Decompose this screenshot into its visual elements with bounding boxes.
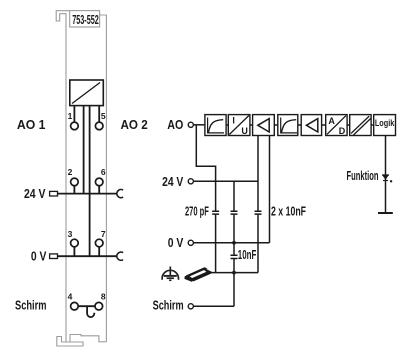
chain box 4 (curve) [278,115,298,136]
svg-text:6: 6 [101,167,106,177]
svg-text:1: 1 [68,111,73,121]
svg-text:24 V: 24 V [24,186,46,201]
pin circles [71,122,103,310]
wire AO line [194,125,386,306]
terminal circle 24V [188,179,193,184]
wire DAC 0V lead [89,106,91,257]
ground symbol [162,267,178,281]
svg-text:7: 7 [101,229,106,239]
LED symbol [382,175,392,183]
wire 0V line [194,242,270,244]
pin 5 [95,122,103,130]
bus arc 24V [117,190,123,198]
svg-text:A: A [328,116,335,126]
terminal circle Schirm [188,304,193,309]
chain box 1 (curve) [205,115,226,136]
chain box 7 (isolation) [350,115,371,136]
capacitor 270pF [212,211,261,258]
wire pin5 lead [98,106,100,123]
svg-text:8: 8 [101,292,106,302]
wire pin3 stem [73,247,75,257]
capacitor 10nF right (2x10nF) [255,211,262,214]
svg-text:D: D [339,126,346,136]
wire pin6 stem [98,186,100,194]
pin 2 [71,178,79,186]
svg-text:AO: AO [167,117,183,132]
box7 isolation diagonals [351,116,371,135]
chassis bar [378,212,393,214]
box2 I/U diagonal [229,116,249,135]
wire cap3 bottom to shield rail [257,214,259,272]
pin numbers [68,111,106,301]
svg-text:5: 5 [101,111,106,121]
pin 1 [71,122,79,130]
wire AO branch to 270pF [196,125,215,211]
svg-text:4: 4 [68,292,73,302]
DAC box [70,80,104,106]
wire 0V rail module [58,255,118,257]
svg-text:3: 3 [68,229,73,239]
svg-text:0 V: 0 V [31,249,47,264]
wire schirm line [194,305,235,307]
box1 curve axes [208,118,224,133]
svg-text:270 pF: 270 pF [185,203,209,218]
wire riser box3 to 0V [269,136,271,243]
svg-text:24 V: 24 V [162,174,184,189]
svg-text:I: I [232,116,235,126]
svg-text:Logik: Logik [375,118,395,128]
chain box 8 (Logik) [374,115,396,136]
box4 curve [281,120,296,133]
wire riser box3 to 24V [257,136,259,211]
box4 curve axes [281,118,297,133]
wire 270pF to shield rail [215,214,217,272]
svg-text:Schirm: Schirm [15,297,47,312]
wire shield bridge 4-8 [78,305,96,307]
box6 A/D diagonal [327,116,346,135]
wire pin2 stem [73,186,75,194]
terminal circle 0V [188,240,193,245]
connector 24V [50,191,58,196]
svg-text:Funktion: Funktion [347,168,379,183]
module 753-552 outline [56,11,106,346]
svg-text:AO 1: AO 1 [17,117,46,132]
wire cap2 column [233,181,235,211]
terminal circle AO [188,122,193,309]
svg-text:2: 2 [68,167,73,177]
junction dot 0V [232,241,236,245]
wire 10nF to schirm [233,259,235,307]
wire pin7 stem [98,247,100,257]
svg-text:U: U [241,126,248,136]
pin 7 [95,239,103,247]
svg-text:0 V: 0 V [168,235,184,250]
capacitor 10nF lower [231,255,238,258]
wire shield rail [212,272,259,274]
box1 curve [208,120,223,133]
chain box 3 (amplifier) [253,115,275,136]
wire 24V rail module [58,193,118,195]
signal chain connecting line [205,124,395,126]
chain box 6 (A/D) [326,115,347,136]
bus arc 0V [117,252,123,260]
connector 0V [50,254,58,259]
box5 amplifier triangle [306,119,317,132]
wire logik down [385,136,387,214]
chain box 5 (amplifier) [301,115,321,136]
chain box 2 (I/U) [228,115,250,136]
capacitor 10nF upper (2x10nF) [231,211,238,214]
svg-text:10nF: 10nF [238,247,257,262]
svg-text:AO 2: AO 2 [121,117,148,132]
svg-text:753-552: 753-552 [72,12,99,27]
wire 24V line [194,180,259,182]
pin 4 [71,302,79,310]
pin 8 [95,302,103,310]
pin 3 [71,239,79,247]
wire pin1 lead [58,106,118,318]
box3 amplifier triangle [258,119,269,132]
pin 6 [95,178,103,186]
svg-text:Schirm: Schirm [153,298,184,313]
junction dot shield [232,271,236,275]
shield hook symbol [87,306,94,317]
wire DAC 24V lead [83,106,85,194]
svg-text:2 x 10nF: 2 x 10nF [271,203,306,218]
shield clamp symbol [184,267,212,282]
